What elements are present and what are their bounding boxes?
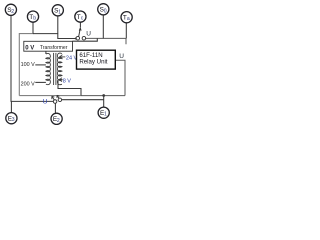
svg-text:24 V: 24 V <box>66 56 78 62</box>
svg-text:a: a <box>127 16 130 22</box>
svg-text:1: 1 <box>58 9 61 15</box>
svg-text:3: 3 <box>12 117 15 123</box>
svg-text:2: 2 <box>57 118 60 124</box>
svg-text:2: 2 <box>11 9 14 15</box>
svg-text:200 V: 200 V <box>21 82 35 88</box>
svg-text:0 V: 0 V <box>25 45 34 51</box>
svg-text:Transformer: Transformer <box>40 45 68 51</box>
svg-text:Relay Unit: Relay Unit <box>79 59 107 66</box>
svg-text:8 V: 8 V <box>63 78 72 84</box>
svg-text:b: b <box>33 16 36 22</box>
svg-text:1: 1 <box>104 112 107 118</box>
svg-text:100 V: 100 V <box>21 62 35 68</box>
svg-text:U: U <box>119 53 124 60</box>
svg-text:0: 0 <box>104 8 107 14</box>
svg-text:U: U <box>86 30 91 37</box>
svg-text:U: U <box>43 99 48 106</box>
